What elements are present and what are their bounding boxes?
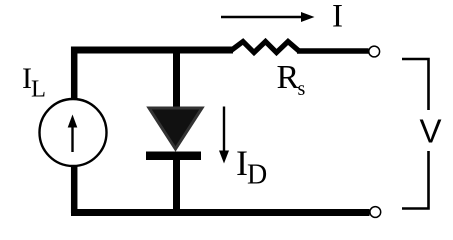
wire middle vertical lower segment <box>173 158 180 213</box>
current source U1 circle <box>40 99 107 166</box>
current source U1 arrow shaft <box>71 126 73 152</box>
diode D1 cathode bar <box>146 152 201 161</box>
voltage bracket bottom-right corner <box>402 151 429 209</box>
wire top horizontal left segment <box>71 47 233 54</box>
wire middle vertical upper segment <box>173 47 180 113</box>
diode current ID arrow head <box>219 151 229 164</box>
wire bottom horizontal <box>71 209 370 216</box>
current I arrow head <box>301 12 315 22</box>
terminal node top-right open circle <box>369 46 380 57</box>
svg-text:s: s <box>298 78 306 100</box>
wire left vertical lower segment <box>71 165 78 213</box>
resistor R1 zigzag body <box>231 42 299 53</box>
svg-text:I: I <box>332 0 343 35</box>
voltage bracket top-right corner <box>402 59 429 110</box>
svg-text:D: D <box>247 160 267 191</box>
svg-text:V: V <box>420 113 442 150</box>
svg-text:L: L <box>31 76 46 103</box>
terminal node bottom-right open circle <box>370 207 381 218</box>
wire top horizontal right segment <box>297 48 369 53</box>
svg-text:R: R <box>277 59 300 96</box>
current I arrow shaft <box>221 16 303 18</box>
current source U1 arrow head <box>68 115 78 128</box>
wire left vertical upper segment <box>71 47 78 101</box>
diode D1 triangle <box>149 108 202 149</box>
diode current ID arrow shaft <box>223 107 225 153</box>
